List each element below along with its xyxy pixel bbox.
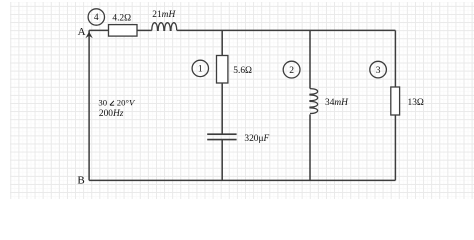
svg-text:B: B — [77, 174, 84, 186]
wire: R1 to L1 — [137, 29, 152, 31]
meter circle 4 — [88, 9, 104, 25]
svg-text:21mH: 21mH — [152, 10, 176, 20]
wire branch1: R2 to C1 — [221, 83, 223, 134]
current arrow at node A — [85, 32, 92, 39]
wire branch1: top to R2 — [221, 30, 223, 55]
wire branch2: top to L2 — [309, 30, 311, 88]
meter circle 3 — [370, 61, 387, 78]
svg-text:13Ω: 13Ω — [408, 98, 424, 108]
svg-text:200Hz: 200Hz — [99, 109, 124, 119]
wire right: top corner to R3 — [394, 30, 396, 87]
svg-text:20°V: 20°V — [117, 98, 136, 108]
inductor L1 21mH body — [152, 23, 177, 31]
inductor L2 34mH body — [310, 89, 318, 114]
wire branch1: C1 to bottom — [221, 140, 223, 181]
svg-text:4.2Ω: 4.2Ω — [112, 14, 131, 24]
angle symbol in source label — [110, 101, 114, 105]
svg-text:320μF: 320μF — [244, 134, 269, 144]
wire top: L1 to top-right corner — [177, 29, 396, 31]
wire branch2: L2 to bottom — [309, 114, 311, 180]
resistor R3 13ohm body — [391, 87, 400, 115]
svg-text:30: 30 — [98, 98, 107, 108]
meter circle 1 — [192, 60, 208, 76]
svg-text:4: 4 — [94, 13, 99, 23]
svg-text:2: 2 — [289, 66, 294, 76]
wire top: node A to R1 — [89, 29, 108, 31]
meter circle 2 — [283, 61, 300, 78]
svg-text:5.6Ω: 5.6Ω — [233, 66, 252, 76]
svg-text:A: A — [78, 26, 86, 38]
resistor R1 4.2ohm body — [109, 25, 138, 36]
wire left: A down to B — [88, 30, 90, 180]
wire right: R3 to bottom corner — [394, 115, 396, 180]
svg-text:34mH: 34mH — [325, 98, 349, 108]
capacitor C1 320uF bottom plate — [207, 139, 236, 141]
capacitor C1 320uF top plate — [207, 133, 236, 135]
svg-text:3: 3 — [376, 66, 381, 76]
wire bottom: B to bottom-right corner — [89, 179, 395, 181]
svg-text:1: 1 — [198, 65, 203, 75]
resistor R2 5.6ohm body — [217, 56, 228, 84]
